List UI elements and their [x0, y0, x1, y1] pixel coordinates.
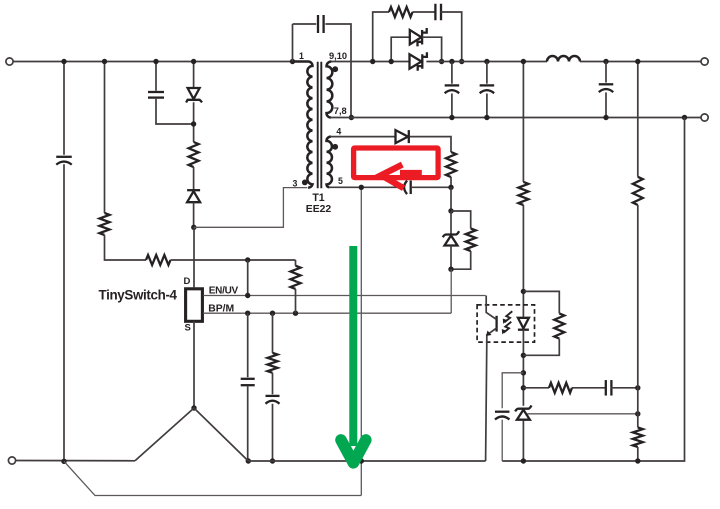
annotation red arrow: [381, 165, 422, 189]
node clamp top: [448, 208, 453, 213]
resistor R3: [189, 142, 199, 167]
node output rail / D2 right: [439, 59, 444, 64]
resistor R10: [554, 313, 564, 338]
wire bottom rail mid: [248, 460, 485, 462]
svg-text:TinySwitch-4: TinySwitch-4: [99, 287, 178, 302]
wire bias to clamp: [450, 187, 452, 211]
T1 bias phase dot: [332, 144, 338, 150]
node input rail / VR1: [191, 59, 196, 64]
wire C11 bottom: [501, 420, 503, 461]
node divider / comp: [635, 385, 640, 390]
wire R2 to EN/UV node: [171, 259, 296, 261]
node LED bottom: [521, 353, 526, 358]
wire C10 right: [411, 186, 451, 188]
wire D2 right riser: [422, 37, 442, 61]
wire bias return vertical: [360, 187, 362, 495]
wire top input rail: [13, 61, 292, 63]
resistor R12: [633, 177, 643, 205]
wire T1 pin5 lead: [329, 186, 404, 188]
capacitor C5: [318, 15, 324, 33]
wire C7 top: [451, 62, 453, 84]
label T1 pin 9,10: [329, 51, 347, 61]
wire R3 to D1: [193, 167, 195, 190]
node 7,8 rail / C8: [484, 115, 489, 120]
wire C8 bottom: [486, 94, 488, 118]
wire C5 left: [292, 24, 294, 62]
svg-text:9,10: 9,10: [329, 51, 347, 61]
resistor R13: [633, 428, 643, 447]
op-amp U1 TinySwitch-4 body: [186, 289, 203, 322]
wire drain to IC D pin: [193, 227, 195, 287]
node output rail / C8: [484, 59, 489, 64]
diode D3: [410, 52, 427, 70]
label T1 core type: [306, 204, 332, 215]
resistor R4: [268, 353, 278, 373]
label U1 S pin: [185, 322, 191, 333]
wire EN/UV net: [203, 295, 485, 297]
wire C4 bottom: [272, 404, 274, 461]
wire D4 to R7: [410, 137, 451, 152]
resistor R9: [518, 182, 528, 205]
T1 primary phase dot: [302, 180, 308, 186]
node input rail / R1: [102, 59, 107, 64]
node bottom rail / bias return: [359, 458, 364, 463]
capacitor C6: [435, 4, 441, 21]
wire R5 bottom: [295, 289, 297, 313]
output terminal +: [701, 58, 708, 65]
node pin5 / bias return: [359, 185, 364, 190]
wire R5 top: [295, 260, 297, 266]
node 7,8 rail / C7: [449, 115, 454, 120]
wire 7,8 rail: [331, 117, 701, 119]
wire C3 top: [247, 313, 249, 377]
wire output rail right: [580, 61, 701, 63]
input terminal L2: [8, 457, 15, 464]
capacitor C3: [241, 379, 255, 385]
node 7,8 rail / return: [682, 115, 687, 120]
wire LED to lower node: [522, 330, 524, 406]
wire C5 right: [325, 24, 351, 118]
annotation green arrow: [341, 246, 366, 463]
wire C2 bottom: [156, 99, 194, 124]
node secondary gnd / R13: [635, 458, 640, 463]
label U1 name: [99, 287, 178, 302]
node input rail / C2: [153, 59, 158, 64]
input terminal L1: [6, 58, 13, 65]
zener VR3: [515, 405, 531, 419]
node output rail / R12: [635, 59, 640, 64]
wire opto chain top: [522, 62, 524, 182]
wire R8 bottom: [451, 251, 471, 269]
wire R11 to C12: [572, 387, 606, 389]
node C2 / VR1: [191, 121, 196, 126]
svg-text:7,8: 7,8: [334, 106, 347, 116]
node output rail / D2: [389, 59, 394, 64]
wire R1 to R2: [105, 235, 147, 260]
capacitor C9: [599, 84, 614, 92]
resistor R11: [549, 383, 572, 393]
node bottom rail / C3: [246, 458, 251, 463]
label U1 D pin: [184, 276, 191, 287]
svg-text:S: S: [185, 322, 191, 333]
label T1 pin 3: [293, 179, 298, 189]
wire C2 top: [155, 62, 157, 91]
node BP/M / R4: [270, 311, 275, 316]
wire EN/UV to opto collector: [485, 295, 487, 298]
wire VR1 top: [193, 62, 195, 89]
svg-text:D: D: [184, 276, 191, 287]
resistor R2: [146, 255, 170, 265]
node source peak: [191, 405, 196, 410]
wire VR2 top: [450, 211, 452, 234]
node comp tap: [521, 385, 526, 390]
node output rail / C9: [603, 59, 608, 64]
node R2 / EN-UV branch: [245, 257, 250, 262]
svg-text:4: 4: [336, 127, 341, 137]
optocoupler U2 LED: [518, 318, 529, 330]
wire C1 top: [63, 62, 65, 155]
node LED top: [521, 289, 526, 294]
wire comp to R11: [523, 387, 549, 389]
wire VR3 bottom: [522, 421, 524, 462]
resistor R10 branch top: [523, 291, 559, 313]
wire output rail mid: [426, 61, 547, 63]
capacitor C10: [404, 181, 411, 195]
wire opto emitter down: [486, 342, 487, 461]
capacitor C4: [266, 396, 280, 404]
wire output rail left: [331, 61, 410, 63]
wire bias to BP/M: [450, 269, 452, 313]
node clamp bottom: [448, 267, 453, 272]
resistor R8: [466, 229, 476, 252]
wire drain to transformer pin 3: [194, 188, 307, 228]
wire divider mid: [637, 388, 639, 414]
node output rail / snubber: [370, 59, 375, 64]
wire return loop: [64, 461, 361, 495]
node divider / ref: [635, 411, 640, 416]
zener VR2: [443, 231, 459, 245]
wire R12 top: [637, 62, 639, 177]
wire IC S pin down: [193, 321, 195, 408]
capacitor C11: [495, 412, 510, 420]
wire R7 bottom: [450, 177, 452, 187]
wire T1 pin4 lead: [331, 136, 396, 138]
wire C1 bottom: [63, 164, 65, 461]
resistor R1: [100, 213, 110, 235]
wire R4 top: [272, 313, 274, 353]
wire R6 to C6: [413, 11, 436, 13]
wire R9 to LED: [522, 205, 524, 317]
transformer T1 primary winding: [293, 62, 313, 188]
transformer T1 bias winding: [327, 137, 332, 188]
wire R12 to divider: [637, 205, 639, 388]
node output rail / opto chain: [521, 59, 526, 64]
wire R1 top: [104, 62, 106, 214]
resistor R10 branch bottom: [523, 339, 559, 356]
label T1 pin 1: [299, 51, 304, 61]
svg-text:3: 3: [293, 179, 298, 189]
svg-text:EE22: EE22: [306, 204, 332, 215]
capacitor C7: [445, 85, 460, 93]
node C11 tap: [521, 370, 526, 375]
wire D2 left riser: [391, 37, 410, 61]
output terminal -: [701, 114, 708, 121]
node 7,8 rail / C9: [603, 115, 608, 120]
resistor R7: [446, 152, 456, 177]
node drain: [191, 225, 196, 230]
wire VR1 to R3: [193, 102, 195, 142]
transformer T1 core: [318, 62, 322, 188]
wire C8 top: [486, 62, 488, 84]
node bottom rail / C1: [61, 459, 66, 464]
node input rail / C1: [61, 59, 66, 64]
wire C11 jog: [502, 373, 523, 409]
resistor R5: [291, 266, 301, 289]
wire BP/M net: [203, 312, 451, 314]
resistor R6: [389, 7, 413, 17]
wire bottom input rail: [16, 460, 135, 462]
label T1 pin 7,8: [334, 106, 347, 116]
node output rail / C7: [449, 59, 454, 64]
capacitor C8: [480, 85, 495, 93]
transformer T1 secondary winding: [327, 62, 333, 118]
wire RC snubber left: [373, 12, 389, 62]
optocoupler U2 light arrows: [502, 311, 513, 334]
wire VR2 bottom: [450, 246, 452, 270]
wire C12 right: [611, 387, 638, 389]
wire R13 bottom: [637, 447, 639, 461]
wire source hill: [135, 408, 248, 461]
T1 secondary phase dot: [332, 66, 338, 72]
node EN/UV / sense: [245, 293, 250, 298]
wire secondary return right: [502, 118, 684, 462]
node input rail / T1 pin1: [290, 59, 295, 64]
label T1 pin 4: [336, 127, 341, 137]
svg-text:T1: T1: [312, 192, 324, 204]
wire R8 branch: [451, 211, 471, 229]
svg-text:1: 1: [299, 51, 304, 61]
diode D4: [396, 130, 409, 143]
wire C9 bottom: [605, 92, 607, 117]
wire C3 bottom: [247, 386, 249, 461]
svg-text:5: 5: [338, 176, 343, 186]
node secondary gnd / VR3: [521, 458, 526, 463]
optocoupler U2 phototransistor: [486, 296, 497, 343]
node bias rect output: [448, 185, 453, 190]
wire R4 to C4: [272, 373, 274, 395]
annotation red box: [354, 148, 439, 178]
label U1 BP/M pin: [208, 304, 234, 315]
label U1 EN/UV pin: [209, 286, 239, 297]
node bottom rail / C4: [270, 458, 275, 463]
label T1 ref: [312, 192, 324, 204]
wire RC snubber right: [441, 12, 462, 62]
zener VR1: [186, 88, 202, 103]
capacitor C2: [148, 92, 164, 98]
wire D1 to drain node: [193, 202, 195, 227]
diode D1: [187, 190, 200, 202]
capacitor C12: [606, 380, 612, 396]
wire VR3 ref: [528, 413, 638, 415]
wire C7 bottom: [451, 94, 453, 118]
node 7,8 rail / C5: [349, 115, 354, 120]
diode D2: [410, 28, 427, 46]
node BP/M / R5: [293, 311, 298, 316]
wire C5 top: [293, 23, 317, 25]
wire C9 top: [605, 62, 607, 83]
inductor L1: [547, 56, 580, 61]
node output rail / snubber right: [459, 59, 464, 64]
node BP/M / C3: [245, 311, 250, 316]
wire R13 top: [637, 414, 639, 428]
label T1 pin 5: [338, 176, 343, 186]
optocoupler U2 box: [477, 305, 534, 342]
capacitor C1: [56, 157, 72, 165]
wire EN/UV sense drop: [247, 260, 249, 296]
